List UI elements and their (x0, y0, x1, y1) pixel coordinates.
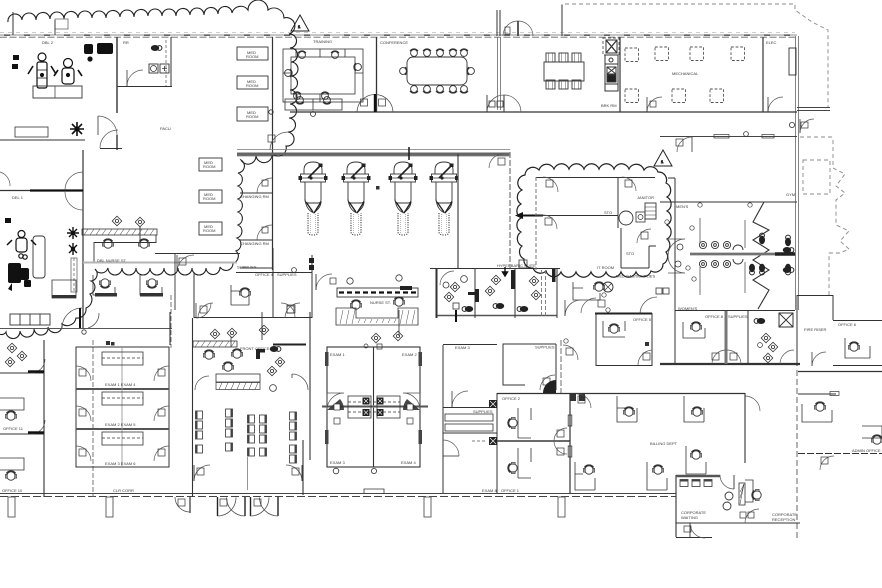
svg-text:EXAM 8: EXAM 8 (482, 488, 497, 493)
svg-text:OFFICE 1: OFFICE 1 (501, 488, 520, 493)
equipment cluster room DBL2 (28, 53, 82, 88)
desk in DEL room near corridor (52, 280, 76, 298)
wall: DBL2 right wall (116, 37, 118, 150)
L desks with chairs (575, 396, 706, 490)
double entry doors opening up (503, 21, 518, 36)
supplies/shower room fixtures (754, 318, 765, 324)
center dividing wall (322, 405, 428, 408)
svg-text:ROOM: ROOM (246, 54, 258, 59)
triangle 1 near cloud2 (654, 150, 672, 166)
dark door at corridor x=745 (745, 396, 760, 411)
right side vertical wall segment between gym & rooms (674, 178, 676, 310)
dashed equipment + circle in corridor below cloud (573, 282, 600, 300)
four surgical chairs (299, 162, 328, 235)
svg-text:OFFICE 5: OFFICE 5 (633, 317, 652, 322)
big entry arcs men's/women's (668, 239, 685, 256)
svg-text:JANITOR: JANITOR (637, 195, 654, 200)
svg-text:WAITING: WAITING (681, 515, 698, 520)
svg-text:NURSE ST.: NURSE ST. (370, 300, 391, 305)
canopy dashed outline top-right (562, 4, 828, 108)
roof overhang dashed line above top wall (0, 32, 795, 34)
fixtures RR (149, 64, 158, 73)
table in DBL2 (33, 86, 82, 98)
office 4 / supplies rooms (194, 248, 312, 318)
break room doors bottom-left (487, 95, 504, 112)
counter band (690, 253, 795, 256)
svg-text:RR: RR (123, 40, 129, 45)
sink rows at counter (699, 241, 743, 267)
window ticks (325, 352, 422, 444)
svg-text:STO: STO (604, 210, 612, 215)
svg-text:SUPPLIES: SUPPLIES (473, 409, 493, 414)
dark door top of office2 (543, 380, 556, 393)
reception desk hatched (216, 374, 260, 390)
door mech (647, 97, 662, 112)
bench + waiting chairs top-left (10, 314, 50, 325)
svg-text:BRK RM: BRK RM (601, 103, 617, 108)
corp waiting counter + chairs (676, 476, 720, 487)
right wall of surgical bay (457, 154, 459, 268)
left exam block (76, 347, 169, 467)
right exterior wall (796, 36, 799, 310)
svg-text:ROOM: ROOM (246, 83, 258, 88)
svg-text:SUPPLIES: SUPPLIES (535, 345, 555, 350)
exam light + cart small symbols (12, 43, 113, 69)
toilet room in front office area (270, 346, 281, 352)
svg-text:EXAM 2 EXAM 5: EXAM 2 EXAM 5 (105, 422, 136, 427)
partition lines (699, 218, 701, 243)
door at right corridor end (800, 119, 814, 133)
exam tables rows (102, 352, 143, 445)
svg-text:EXAM 3: EXAM 3 (455, 345, 470, 350)
exam block doors (76, 366, 169, 461)
svg-text:MEN'S: MEN'S (676, 204, 689, 209)
svg-text:ELEC: ELEC (766, 40, 777, 45)
pilasters below bottom wall (8, 497, 565, 517)
counter dark end (775, 252, 795, 255)
MED ROOM boxes column 2 (199, 158, 222, 235)
svg-text:OFFICE 11: OFFICE 11 (3, 426, 24, 431)
svg-text:IT ROOM: IT ROOM (597, 265, 614, 270)
counter in DEL area (15, 127, 48, 137)
walls segments left bottom of surgical room (0, 140, 122, 149)
svg-text:DEL 1: DEL 1 (12, 195, 24, 200)
dashed slider left (71, 258, 77, 292)
dashed patio right (800, 137, 849, 295)
svg-text:BILLING DEPT: BILLING DEPT (650, 441, 678, 446)
DBL NURSE ST hatched counter (82, 229, 157, 235)
interior of cloud2 (536, 177, 656, 270)
left wall stub top (12, 12, 14, 35)
door arc RR (127, 70, 143, 86)
corridor door + wall right of supplies (560, 340, 562, 394)
desks below cloud (93, 275, 162, 295)
svg-text:MED GAS/SUPPLIES: MED GAS/SUPPLIES (616, 274, 655, 279)
svg-text:ADMIN OFFICE: ADMIN OFFICE (852, 448, 881, 453)
stool chair (70, 122, 84, 136)
door arc to corridor below PACU (177, 255, 194, 272)
door arrow into cloud room (523, 215, 543, 217)
svg-text:PACU: PACU (160, 126, 171, 131)
svg-text:SUPPLIES: SUPPLIES (728, 314, 748, 319)
small paired squares below cloud2 (656, 288, 662, 294)
svg-text:OFFICE 6: OFFICE 6 (838, 322, 857, 327)
svg-text:FIRE RISER: FIRE RISER (804, 327, 827, 332)
entry doors bottom left of waiting (194, 465, 210, 481)
wall conference/break (497, 37, 499, 110)
svg-text:FRONT OFFICE: FRONT OFFICE (240, 346, 270, 351)
MED ROOM boxes column 1 (237, 47, 268, 121)
svg-text:CONFERENCE: CONFERENCE (380, 40, 408, 45)
svg-text:HYPERBARIC SUITE: HYPERBARIC SUITE (497, 263, 536, 268)
nurse desk above thick wall (285, 99, 342, 110)
corridor wall + doors above waiting (0, 328, 172, 330)
svg-text:SUPPLIES: SUPPLIES (237, 265, 257, 270)
svg-text:CLR CORR: CLR CORR (113, 488, 134, 493)
corridor wall below training/conference (290, 111, 797, 113)
svg-text:OFFICE 8: OFFICE 8 (705, 314, 724, 319)
svg-text:OFFICE 10: OFFICE 10 (2, 488, 23, 493)
doors on corridor (65, 172, 83, 190)
revision triangle 1 (top) (291, 15, 309, 31)
double door at corridor to surgical bay (357, 95, 375, 113)
svg-text:ROOM: ROOM (203, 228, 215, 233)
walls (0, 312, 310, 497)
door DBL2 (98, 116, 117, 135)
svg-text:CHANGING RM: CHANGING RM (240, 241, 269, 246)
vestibule entrances on bottom wall (175, 497, 190, 512)
svg-text:EXAM 4: EXAM 4 (401, 460, 416, 465)
zigzag partition (753, 202, 769, 309)
svg-text:EXAM 2: EXAM 2 (402, 352, 417, 357)
thick top wall (237, 149, 510, 151)
door arcs dark (327, 393, 344, 410)
svg-text:EXAM 3 EXAM 6: EXAM 3 EXAM 6 (105, 461, 136, 466)
svg-text:EXAM 1: EXAM 1 (330, 352, 345, 357)
waiting chairs (196, 409, 297, 463)
svg-text:EXAM 3: EXAM 3 (330, 460, 345, 465)
svg-text:CHANGING RM: CHANGING RM (240, 194, 269, 199)
door on top wall at left (55, 19, 68, 29)
svg-text:TRAINING: TRAINING (313, 39, 332, 44)
svg-text:OFFICE 2: OFFICE 2 (502, 396, 521, 401)
canopy lines right (797, 107, 830, 109)
fixtures at far right wall (783, 247, 794, 253)
toilets flanking partition (759, 233, 765, 244)
svg-text:ROOM: ROOM (203, 196, 215, 201)
svg-text:GYM: GYM (786, 192, 795, 197)
small circles drains (690, 226, 694, 230)
bottom main wall (0, 494, 676, 497)
wall right of med rooms (272, 37, 274, 270)
svg-text:EXAM 1 EXAM 4: EXAM 1 EXAM 4 (105, 382, 136, 387)
wall right of training (376, 37, 378, 112)
corridor door right middle (577, 394, 591, 408)
svg-text:MECHANICAL: MECHANICAL (672, 71, 699, 76)
corridor wall left of cloud2 (509, 152, 511, 268)
center tables (348, 396, 400, 418)
svg-text:DBL NURSE ST.: DBL NURSE ST. (97, 258, 127, 263)
svg-text:DBL 2: DBL 2 (42, 40, 54, 45)
gym top wall (660, 136, 797, 138)
svg-text:ROOM: ROOM (203, 164, 215, 169)
svg-text:RECEPTION: RECEPTION (772, 517, 795, 522)
surgical chair cluster lower-left (7, 231, 45, 279)
svg-text:ROOM: ROOM (246, 114, 258, 119)
desk below counter (94, 235, 156, 262)
RR room (toilet) top (117, 37, 172, 87)
vestibule bump center bottom (364, 489, 384, 493)
corridor wall (0, 150, 83, 328)
svg-text:STO: STO (626, 251, 634, 256)
reception desk (739, 483, 745, 505)
top exterior window wall (0, 35, 797, 37)
toilet RR (151, 45, 162, 51)
